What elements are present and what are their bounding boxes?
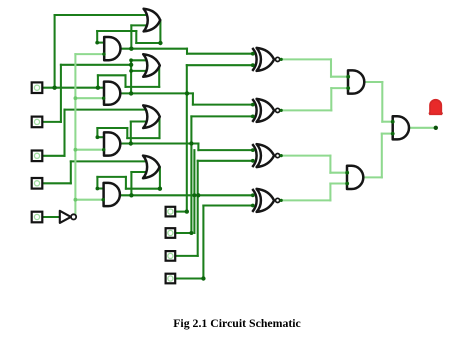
wire OR1.in1: [55, 14, 146, 16]
wire loop2 top: [98, 74, 126, 76]
node pinC-AND4out junction: [196, 193, 200, 197]
wire XNOR1.in1: [187, 53, 254, 55]
XNOR gate X1: [257, 48, 275, 71]
node XNOR4.in2 end: [251, 204, 255, 208]
wire OR4.in2: [131, 171, 145, 173]
wire loop3 east: [127, 137, 159, 139]
wire AND5.in2: [331, 87, 348, 89]
wire pinA stub: [176, 211, 187, 213]
XNOR gate X3: [257, 144, 275, 167]
wire AND2.in2: [75, 97, 103, 99]
node XNOR1.in1 end: [251, 52, 255, 56]
node AND2.in2 pin: [102, 97, 105, 100]
wire AND1.in2: [75, 53, 103, 55]
wire AND6 out: [364, 176, 382, 178]
wire pinC stub: [176, 255, 198, 257]
wire XNOR4 out: [280, 199, 330, 201]
node OR4.in2 tap: [129, 193, 133, 197]
wire OR4 output drop: [159, 167, 161, 188]
node AND1.in2 pin: [102, 52, 105, 55]
wire pin4 stub: [43, 182, 71, 184]
OR gate O1: [144, 9, 161, 32]
node loop4-OR4 junction: [158, 187, 162, 191]
node XNOR2 out stub: [280, 109, 283, 112]
wire riser pin1 to OR1.in1: [54, 15, 56, 88]
wire XNOR2 out: [280, 109, 331, 111]
node pinB corner: [189, 231, 193, 235]
wire pinD stub: [176, 277, 203, 279]
wire OR1.in2 riser: [130, 25, 132, 48]
node pin1-OR1 junction: [52, 86, 56, 90]
wire jog2 drop: [192, 93, 194, 104]
NOT gate N1: [60, 211, 71, 223]
wire XNOR2.in1: [193, 104, 254, 106]
wire jog3 drop: [197, 144, 199, 151]
wire XNOR1 out drop: [330, 59, 332, 76]
node OR1.in2 tap: [129, 47, 133, 51]
wire pin5 stub: [43, 216, 60, 218]
node OR2.in2 tap: [129, 69, 133, 73]
wire XNOR1.in2: [187, 64, 254, 66]
wire AND6.in1: [330, 172, 347, 174]
wire loop3 top: [97, 127, 127, 129]
AND gate A1: [104, 37, 120, 60]
input pin B1: [166, 251, 176, 261]
wire pin1 to node J1: [43, 87, 98, 89]
wire AND4 output to XNOR4.in1: [120, 194, 253, 196]
wire OR2 output drop: [158, 66, 160, 87]
wire XNOR3.in1: [198, 149, 253, 151]
wire AND5 out: [364, 81, 382, 83]
node XNOR1 out stub: [280, 58, 283, 61]
wire AND6.in2: [330, 182, 347, 184]
wire XNOR4 out rise: [329, 184, 331, 201]
wire loop4 right riser: [125, 177, 127, 189]
node AND4.in1 corner: [96, 187, 100, 191]
node AND6.in2 pin: [345, 182, 349, 186]
wire loop4 left riser: [96, 177, 98, 189]
OR gate O4: [143, 156, 160, 179]
AND gate A3: [104, 132, 120, 155]
node LED terminal: [434, 126, 438, 130]
wire loop3 left riser: [96, 128, 98, 137]
node XNOR1.in2 end: [251, 63, 255, 67]
wire pin2 stub: [43, 121, 61, 123]
wire AND1.in1: [97, 42, 106, 44]
node AND7.in1 pin: [391, 120, 395, 124]
wire OR2 feed riser: [130, 60, 132, 93]
wire AND3.in2: [75, 149, 103, 151]
wire XNOR4.in2: [203, 204, 253, 206]
wire AND5.in1: [331, 76, 348, 78]
node pinD corner: [201, 276, 205, 280]
wire pin3 stub: [43, 155, 65, 157]
input pin B0: [166, 274, 176, 284]
node AND2 out tap: [129, 91, 133, 95]
AND gate A7: [393, 116, 409, 139]
wire loop1 left riser: [96, 31, 98, 43]
wire OR3.in1: [65, 109, 147, 111]
input pin B3: [166, 207, 176, 217]
wire AND3 output: [120, 142, 199, 144]
node AND6.in1 pin: [345, 171, 349, 175]
node AND3.in2 pin: [102, 148, 105, 151]
node light tap AND2: [74, 96, 78, 100]
wire loop4 top: [97, 176, 126, 178]
OR gate O3: [143, 105, 160, 128]
wire riser pin3: [63, 110, 65, 156]
wire loop1 right riser: [135, 31, 137, 43]
wire pin2 east: [61, 64, 131, 66]
wire loop2 right riser: [124, 75, 126, 87]
wire XNOR3 out: [280, 155, 330, 157]
node light tap AND3: [74, 148, 78, 152]
wire XNOR2 out rise: [330, 88, 332, 110]
wire riser pin2: [60, 65, 62, 122]
node AND3.in1 corner: [96, 135, 100, 139]
AND gate A6: [347, 166, 363, 189]
node XNOR3.in2 end: [251, 159, 255, 163]
node XNOR4 out stub: [280, 199, 283, 202]
wire loop3 right riser: [126, 128, 128, 138]
wire OR3 output drop: [158, 117, 160, 138]
node pin2 east junction: [129, 63, 133, 67]
wire AND4.in1: [97, 187, 105, 189]
input pin IN4: [32, 178, 43, 189]
wire AND7.in2: [382, 133, 393, 135]
wire OR2.in1: [131, 59, 146, 61]
input pin IN1: [32, 82, 43, 93]
wire OR1.in2: [131, 24, 145, 26]
wire loop2 left riser: [97, 75, 99, 87]
AND gate A2: [104, 82, 120, 105]
wire riser pinA: [186, 65, 188, 211]
wire AND2 output: [121, 92, 193, 94]
node AND4.in2 pin: [102, 198, 105, 201]
node XNOR4.in1 end: [251, 193, 255, 197]
node pinB-AND3out junction: [189, 141, 193, 145]
AND gate A4: [104, 183, 120, 206]
node OR3.in2 tap: [129, 141, 133, 145]
wire XNOR3 out drop: [329, 156, 331, 173]
wire jog1 drop: [186, 49, 188, 54]
wire NOT output riser: [74, 54, 76, 214]
wire AND6 out rise: [381, 134, 383, 178]
wire riser mid: [193, 150, 195, 233]
LED D1: [429, 112, 443, 114]
wire OR3.in2: [131, 120, 146, 122]
wire OR2.in2: [131, 70, 146, 72]
input pin IN2: [32, 117, 43, 128]
wire loop1 east: [136, 42, 160, 44]
node light tap AND4: [74, 198, 78, 202]
node AND5.in1 pin: [346, 75, 350, 79]
caption Fig 2.1: [0, 316, 474, 331]
wire AND5 out drop: [381, 82, 383, 122]
node XNOR3.in1 end: [251, 148, 255, 152]
node XNOR2.in2 end: [251, 115, 255, 119]
wire XNOR2.in2: [191, 115, 253, 117]
wire loop2 east: [126, 86, 160, 88]
input pin IN5: [32, 212, 43, 223]
node XNOR3 out stub: [280, 154, 283, 157]
OR gate O2: [143, 54, 160, 77]
wire riser pinC: [197, 161, 199, 256]
node AND2.in1 junction: [96, 86, 100, 90]
XNOR gate X2: [257, 99, 275, 122]
wire XNOR3.in2: [198, 160, 254, 162]
wire OR3.in2 riser: [130, 122, 132, 144]
XNOR gate X4: [257, 189, 275, 212]
node loop1-OR1 junction: [158, 41, 162, 45]
node pinA corner: [185, 209, 189, 213]
wire AND7.in1: [382, 121, 392, 123]
input pin B2: [166, 228, 176, 238]
input pin IN3: [32, 151, 43, 162]
wire loop4 east: [126, 188, 160, 190]
node AND7.in2 pin: [391, 132, 395, 136]
wire AND3.in1: [97, 136, 105, 138]
node AND5.in2 pin: [346, 86, 350, 90]
wire AND2.in1: [98, 87, 106, 89]
wire OR4.in1: [71, 160, 146, 162]
wire riser pin4: [70, 161, 72, 183]
node riser mid junction: [192, 193, 196, 197]
node pinA-AND2out junction: [185, 91, 189, 95]
wire riser pinD: [202, 206, 204, 279]
wire OR1 output drop: [159, 20, 161, 43]
wire loop1 top: [97, 30, 136, 32]
wire XNOR1 out: [280, 58, 331, 60]
wire AND7 output to LED: [409, 127, 435, 129]
wire AND1 output: [120, 48, 187, 50]
AND gate A5: [348, 70, 364, 93]
node AND1.in1 corner: [95, 41, 99, 45]
wire OR4.in2 riser: [130, 172, 132, 195]
wire riser pinB: [190, 116, 192, 233]
node OR2.in1 tap: [129, 58, 133, 62]
wire pinB stub: [176, 232, 191, 234]
node XNOR2.in1 end: [251, 103, 255, 107]
wire AND4.in2: [75, 199, 103, 201]
